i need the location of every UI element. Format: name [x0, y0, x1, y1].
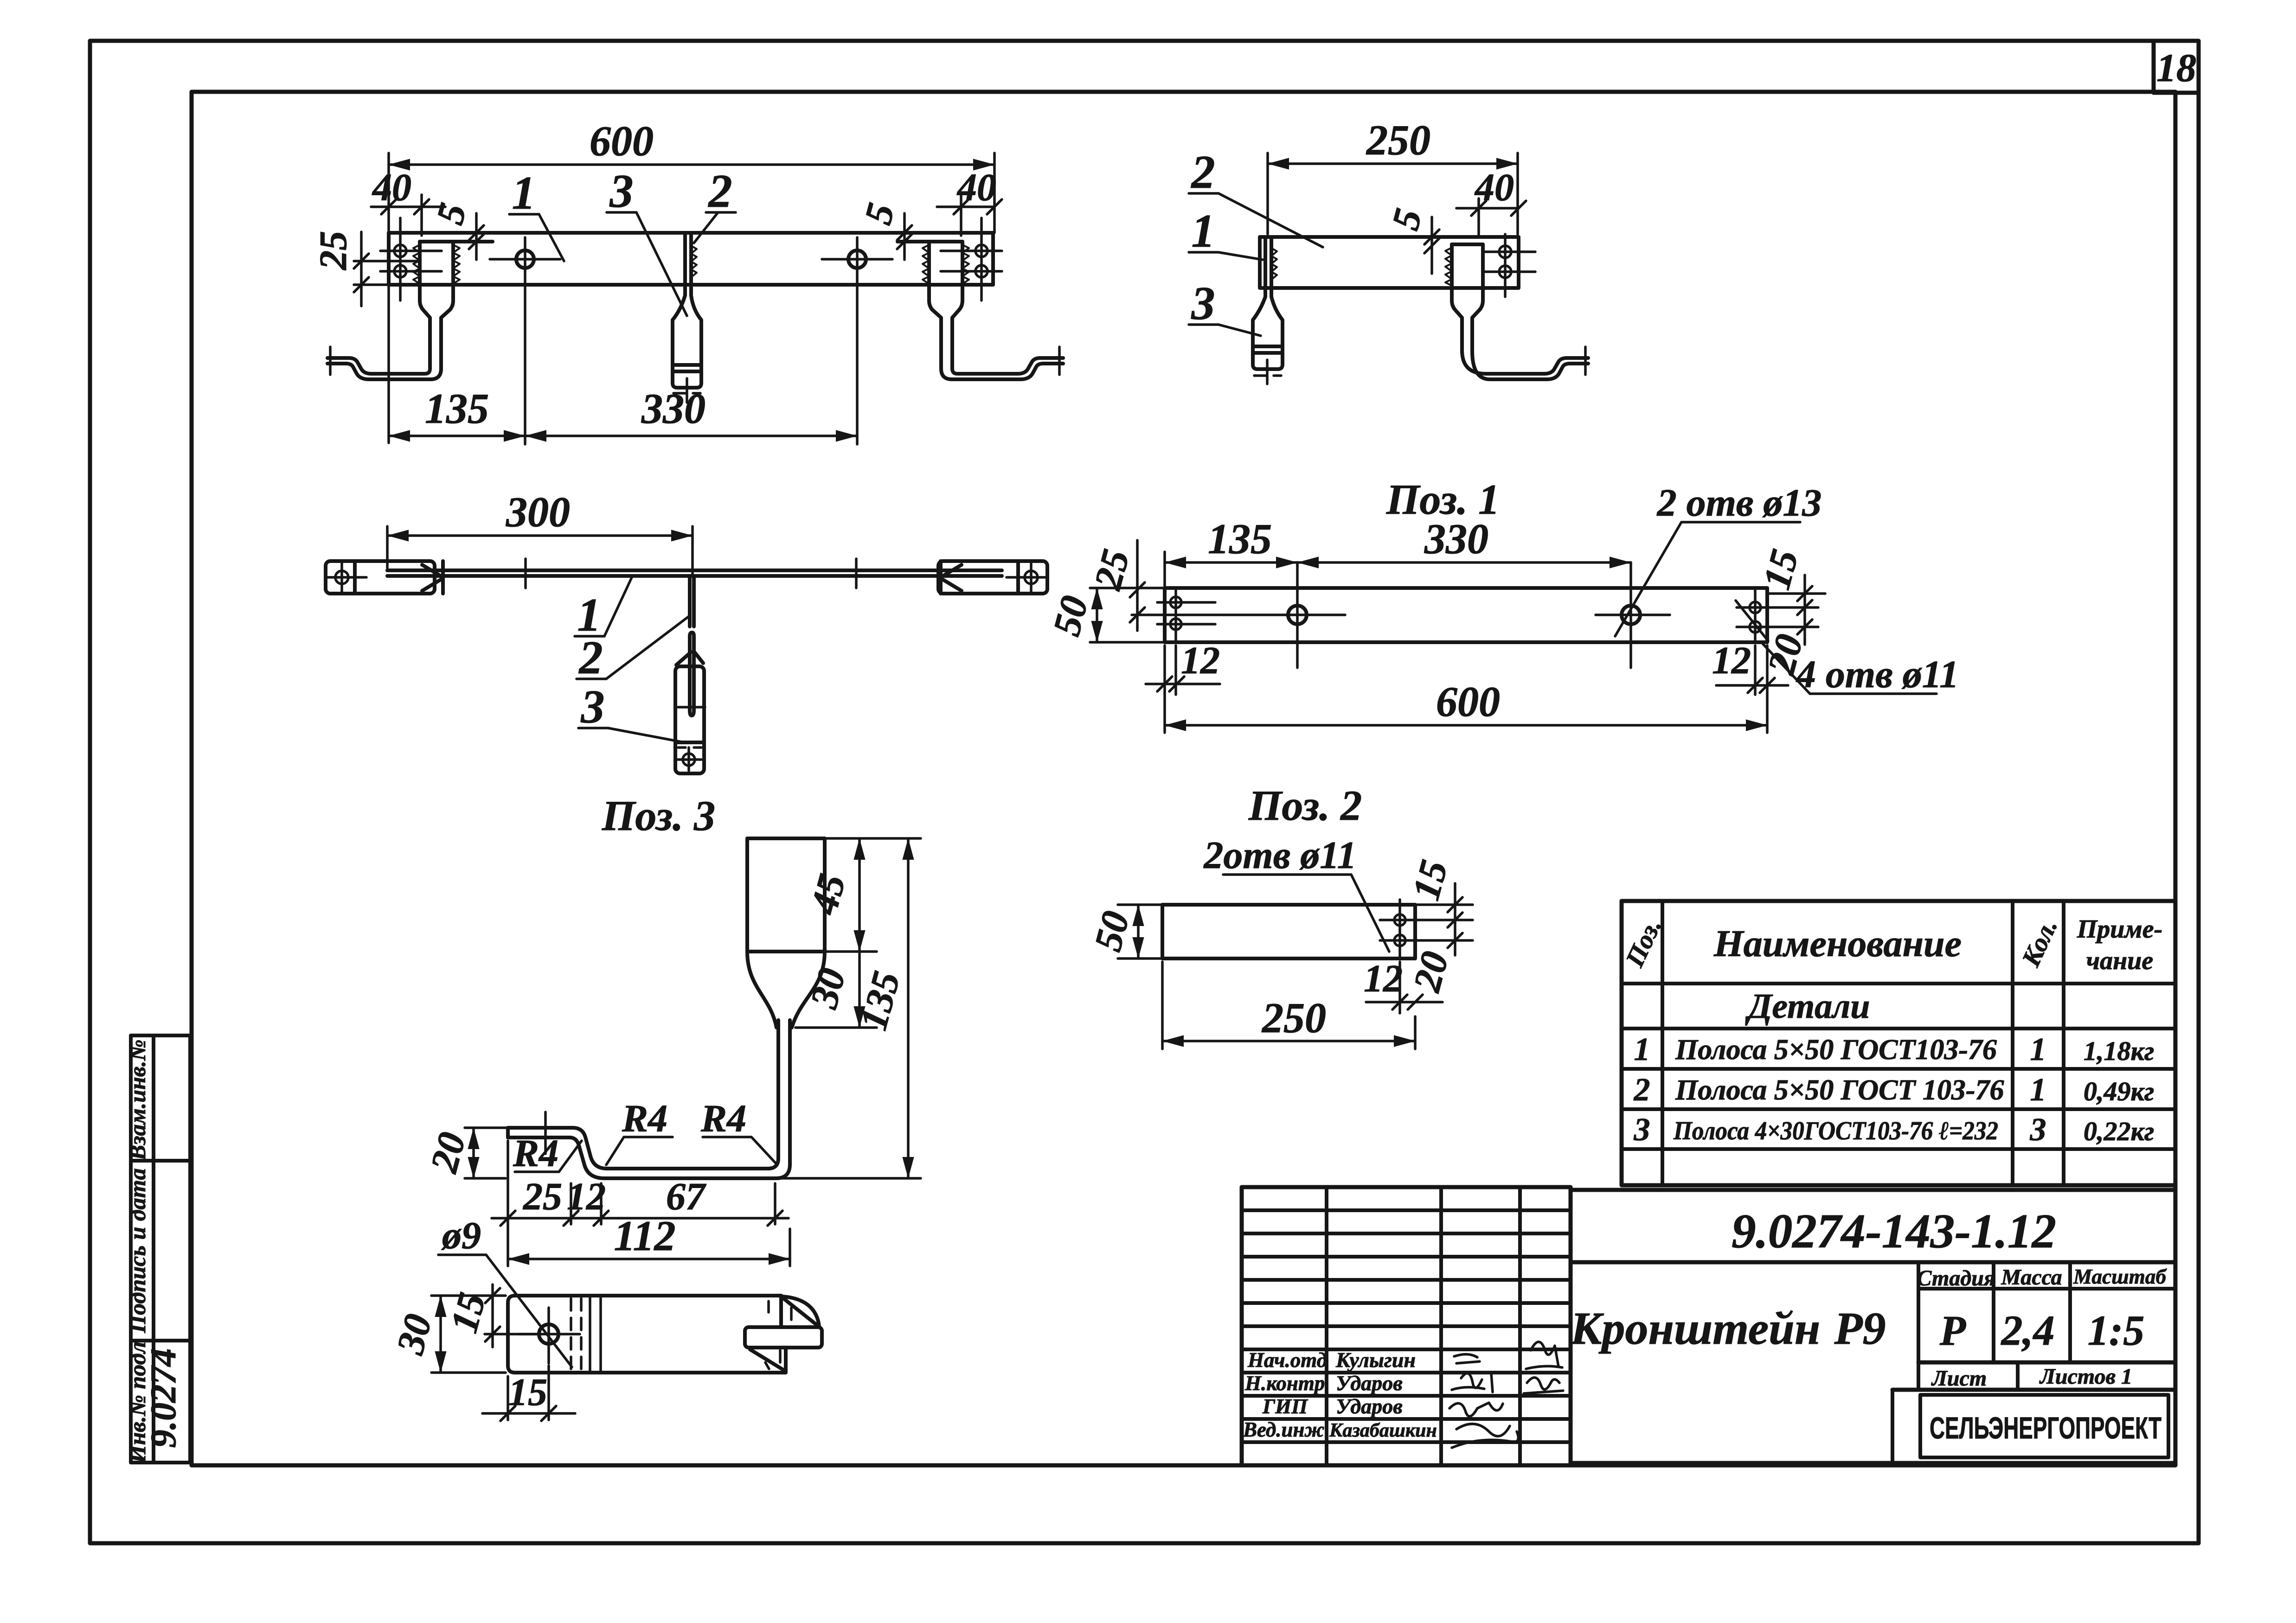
dim 12 [1398, 962, 1401, 1013]
dim 330 [525, 435, 857, 437]
big hole 1 [1288, 606, 1307, 624]
svg-text:Н.контр: Н.контр [1244, 1372, 1325, 1395]
svg-text:4 отв ø11: 4 отв ø11 [1796, 653, 1959, 696]
svg-text:Листов 1: Листов 1 [2039, 1364, 2132, 1389]
dim 50 [1090, 587, 1165, 589]
dim 20 [465, 1126, 508, 1129]
svg-text:0,49кг: 0,49кг [2084, 1076, 2154, 1106]
svg-text:40: 40 [956, 166, 996, 209]
big hole 2 [1622, 606, 1640, 624]
dim 5 right [903, 213, 906, 260]
svg-text:9.0274-143-1.12: 9.0274-143-1.12 [1732, 1204, 2056, 1258]
dims 45 / 30 [825, 837, 921, 840]
taper to stem [747, 952, 825, 1028]
svg-text:R4: R4 [622, 1097, 667, 1140]
svg-text:Казабашкин: Казабашкин [1329, 1420, 1437, 1441]
dim 135 / 330 [1163, 552, 1166, 588]
svg-text:Кронштейн: Кронштейн [1570, 1303, 1821, 1354]
svg-text:3: 3 [1634, 1112, 1650, 1148]
inner drawing frame [192, 92, 2175, 1465]
middle strap plan [688, 576, 692, 626]
bar Поз.2 [1162, 905, 1415, 958]
svg-text:40: 40 [1474, 166, 1514, 209]
dim 600 [1163, 645, 1166, 733]
small holes left [1170, 597, 1181, 608]
svg-text:Приме-: Приме- [2077, 915, 2163, 944]
svg-text:330: 330 [1424, 515, 1488, 562]
svg-text:135: 135 [425, 385, 489, 432]
dim 5 left [475, 213, 478, 260]
bar plan [387, 569, 1002, 572]
signature grid [1242, 1187, 1571, 1465]
svg-text:300: 300 [506, 488, 570, 536]
dim 250 [1161, 962, 1164, 1049]
svg-text:12: 12 [1364, 957, 1403, 1000]
left flare gusset [441, 561, 445, 594]
svg-text:2: 2 [1191, 146, 1215, 198]
left hanger Поз.3 stem and bottle [1253, 237, 1283, 369]
small holes right [1750, 602, 1761, 613]
svg-text:3: 3 [609, 165, 634, 217]
hole ø9 [539, 1324, 558, 1344]
svg-text:40: 40 [372, 166, 411, 209]
svg-text:1: 1 [512, 167, 536, 219]
svg-text:Р: Р [1939, 1307, 1966, 1354]
dim 30 plan [431, 1294, 506, 1297]
svg-text:1: 1 [1634, 1032, 1650, 1067]
dim 20 [1448, 933, 1462, 948]
svg-text:1:5: 1:5 [2088, 1307, 2145, 1354]
left hanger Поз.3 mouth [420, 242, 453, 369]
dim 25 [1136, 540, 1139, 631]
right hanger Поз.3 mouth [929, 242, 962, 369]
bar Поз.1 front [389, 233, 993, 285]
right flare gusset [939, 561, 943, 594]
dim 15 plan top [485, 1333, 538, 1335]
end holes 2отв ø11 [1499, 246, 1511, 258]
left Z-bracket foot [327, 358, 430, 374]
svg-text:18: 18 [2156, 45, 2196, 90]
svg-text:Полоса 4×30ГОСТ103-76 ℓ=232: Полоса 4×30ГОСТ103-76 ℓ=232 [1673, 1117, 1998, 1145]
title block frame [1571, 1190, 2175, 1463]
svg-text:Наименование: Наименование [1713, 922, 1962, 965]
dim 15 right [1767, 592, 1825, 595]
svg-text:250: 250 [1366, 116, 1430, 164]
svg-text:Стадия: Стадия [1917, 1266, 1995, 1291]
dim 25 left [354, 260, 420, 262]
svg-text:Полоса 5×50 ГОСТ103-76: Полоса 5×50 ГОСТ103-76 [1675, 1034, 1997, 1066]
svg-text:3: 3 [581, 681, 605, 733]
svg-text:15: 15 [508, 1371, 547, 1414]
right hanger Поз.3 mouth and foot [1452, 244, 1483, 351]
svg-text:Детали: Детали [1745, 987, 1870, 1026]
hole ø13 no.1 [516, 250, 534, 268]
svg-text:1: 1 [2030, 1032, 2046, 1067]
bend lines dashed [570, 1298, 572, 1370]
hole ø13 no.2 [848, 250, 866, 268]
svg-text:Р9: Р9 [1834, 1303, 1886, 1354]
svg-text:1: 1 [2030, 1072, 2046, 1108]
dim 15 [1415, 903, 1473, 906]
svg-text:чание: чание [2086, 946, 2153, 975]
dim 600 [387, 153, 390, 443]
svg-text:Ударов: Ударов [1336, 1394, 1403, 1418]
svg-text:25: 25 [312, 231, 355, 271]
right end tab plan [938, 561, 1047, 594]
svg-text:330: 330 [641, 385, 705, 432]
dim 135 [389, 435, 525, 437]
dim 5 [1430, 217, 1433, 274]
svg-text:2: 2 [1634, 1072, 1650, 1108]
plan view of strap [508, 1296, 786, 1373]
svg-text:135: 135 [1208, 515, 1272, 562]
signature scribbles [1454, 1354, 1480, 1363]
svg-text:Лист: Лист [1931, 1366, 1987, 1391]
bar Поз.1 [1165, 588, 1767, 642]
hole position ticks [524, 559, 527, 588]
dim 40 right [960, 195, 962, 236]
svg-text:2отв ø11: 2отв ø11 [1203, 834, 1356, 877]
dim 12 right [1754, 645, 1757, 695]
svg-text:12: 12 [1712, 639, 1751, 682]
right Z-bracket foot [952, 358, 1063, 374]
svg-text:Нач.отд: Нач.отд [1247, 1348, 1327, 1372]
svg-text:ГИП: ГИП [1262, 1395, 1308, 1418]
svg-text:600: 600 [590, 117, 654, 165]
svg-text:2: 2 [578, 632, 603, 684]
svg-text:Взам.инв.№: Взам.инв.№ [124, 1040, 150, 1161]
svg-text:1: 1 [1192, 205, 1215, 257]
svg-text:12: 12 [567, 1175, 606, 1218]
svg-text:Подпись и дата: Подпись и дата [124, 1168, 150, 1333]
svg-text:СЕЛЬЭНЕРГОПРОЕКТ: СЕЛЬЭНЕРГОПРОЕКТ [1930, 1411, 2161, 1445]
svg-text:25: 25 [522, 1175, 562, 1218]
svg-text:250: 250 [1261, 994, 1326, 1042]
svg-text:Вед.инж: Вед.инж [1243, 1418, 1324, 1441]
profile: wide head [747, 838, 825, 952]
svg-text:9.0274: 9.0274 [143, 1348, 183, 1448]
flare plan [779, 1296, 783, 1327]
svg-text:R4: R4 [513, 1132, 558, 1175]
svg-text:Масштаб: Масштаб [2073, 1265, 2167, 1288]
dim 20 right [1797, 620, 1812, 634]
svg-text:Масса: Масса [2001, 1265, 2062, 1290]
svg-text:R4: R4 [700, 1097, 746, 1140]
dim 50 [1118, 903, 1162, 906]
dim 135 [778, 1177, 921, 1180]
dim 300 [386, 526, 389, 568]
svg-text:2: 2 [708, 165, 732, 217]
svg-text:3: 3 [2030, 1112, 2046, 1148]
dim 15 plan bottom [507, 1376, 509, 1420]
dim 250 [1266, 153, 1269, 234]
right end holes [975, 245, 988, 257]
dims 25 12 67 [507, 1141, 509, 1266]
svg-text:600: 600 [1436, 678, 1500, 725]
svg-text:3: 3 [1191, 277, 1215, 330]
svg-text:ø9: ø9 [441, 1214, 481, 1257]
holes [1394, 914, 1405, 926]
left end tab plan [326, 561, 435, 594]
svg-text:Кулыгин: Кулыгин [1335, 1348, 1416, 1372]
sheet number box [2154, 42, 2199, 93]
svg-text:1,18кг: 1,18кг [2084, 1036, 2154, 1066]
svg-text:Поз. 2: Поз. 2 [1248, 782, 1362, 829]
svg-text:2 отв ø13: 2 отв ø13 [1656, 481, 1822, 524]
svg-text:Ударов: Ударов [1336, 1371, 1403, 1395]
left vertical stamp table [124, 1035, 190, 1463]
stem and bottom bend [508, 1020, 778, 1169]
svg-text:Полоса 5×50 ГОСТ 103-76: Полоса 5×50 ГОСТ 103-76 [1675, 1074, 2004, 1106]
dim 12 left [1174, 645, 1177, 695]
dim 112 [789, 1229, 791, 1266]
svg-text:0,22кг: 0,22кг [2084, 1116, 2154, 1146]
dim 40 [1477, 198, 1480, 236]
dim 40 left [420, 195, 423, 236]
left end holes 4отв ø11 [394, 245, 406, 257]
svg-text:2,4: 2,4 [2001, 1307, 2055, 1354]
bar Поз.2 front [1260, 237, 1519, 288]
hole centreline on tab [544, 1112, 547, 1154]
svg-text:112: 112 [614, 1212, 676, 1259]
middle hanger Поз.3 stem through bar [673, 233, 701, 388]
svg-text:12: 12 [1181, 639, 1220, 682]
svg-text:Поз. 3: Поз. 3 [602, 792, 715, 839]
